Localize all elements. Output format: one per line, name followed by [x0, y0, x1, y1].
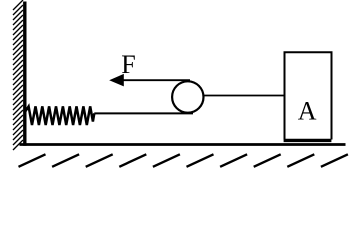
svg-text:F: F — [121, 50, 135, 79]
svg-text:A: A — [298, 97, 317, 126]
